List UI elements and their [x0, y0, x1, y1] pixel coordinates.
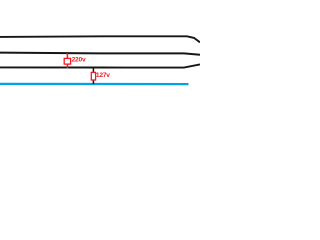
wire: black lead from 127v load down to neutral	[92, 80, 94, 84]
wire: red lead from 220v load down to L3	[66, 64, 68, 68]
wire L1 (top phase line)	[0, 36, 200, 42]
wire: black lead from L3 down to 127v load	[92, 68, 94, 73]
neutral wire (cyan)	[0, 83, 189, 85]
svg-text:220v: 220v	[72, 57, 86, 64]
load box 220v (between L2 and L3)	[64, 58, 70, 64]
wire: red lead from L2 down to 220v load	[66, 53, 68, 58]
load box 127v (between L3 and neutral)	[91, 72, 95, 80]
svg-text:127v: 127v	[96, 72, 110, 79]
wire L2 (middle phase line)	[0, 53, 200, 55]
wire L3 (bottom phase line)	[0, 64, 200, 67]
